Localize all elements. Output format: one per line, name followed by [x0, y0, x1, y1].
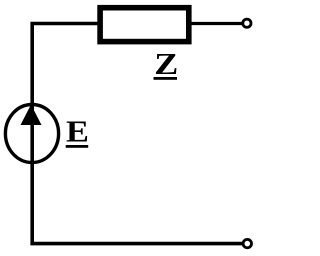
- underline of E: [66, 145, 89, 148]
- source E circle: [5, 105, 58, 163]
- wire: impedance box to top-right terminal: [190, 22, 242, 25]
- node: bottom-right terminal: [243, 239, 251, 247]
- source E arrow: [21, 105, 42, 126]
- underline of Z: [154, 77, 178, 80]
- wire: left/top/bottom loop: [32, 24, 243, 244]
- impedance Z1 box: [100, 8, 189, 42]
- svg-text:E: E: [66, 115, 89, 149]
- svg-text:Z: Z: [154, 47, 178, 81]
- node: top-right terminal: [243, 19, 251, 27]
